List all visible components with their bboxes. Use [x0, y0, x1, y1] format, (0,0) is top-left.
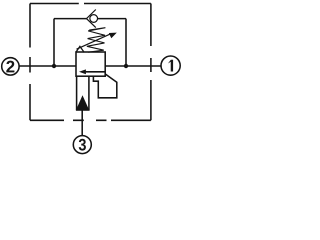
- pilot poppet triangle: [76, 95, 89, 109]
- flow arrow head: [79, 69, 86, 74]
- port 1 circle: [161, 56, 180, 75]
- port 1 label: [168, 60, 173, 72]
- envelope bottom border: [30, 119, 151, 121]
- check valve ball: [90, 15, 98, 23]
- main relief element body: [76, 52, 105, 76]
- port 2 circle: [2, 58, 19, 75]
- adjustable spring: [87, 28, 106, 53]
- node junction dot right: [124, 64, 128, 68]
- port 2 label: [6, 61, 14, 73]
- port 3 channel bottom: [76, 109, 90, 111]
- drain hook path: [93, 74, 116, 98]
- adjustment arrow line: [77, 34, 112, 50]
- adjustment arrow head: [109, 33, 117, 39]
- node junction dot left: [52, 64, 56, 68]
- wire port 1 line: [105, 65, 161, 67]
- pilot seat vee: [76, 46, 84, 52]
- port 3 circle: [73, 136, 91, 154]
- check valve seat: [87, 10, 96, 28]
- envelope top border: [30, 3, 151, 5]
- flow arrow line: [85, 71, 106, 73]
- envelope left border: [29, 4, 31, 121]
- wire port 2 line: [19, 65, 76, 67]
- wire check valve top line: [54, 18, 126, 20]
- wire check right riser: [125, 19, 127, 66]
- wire port 3 line: [81, 110, 83, 135]
- port 3 channel left wall: [76, 76, 78, 110]
- wire pilot left riser: [53, 19, 55, 66]
- port 3 label: [79, 139, 86, 151]
- port 3 channel right wall: [88, 76, 90, 110]
- envelope right border: [150, 4, 152, 121]
